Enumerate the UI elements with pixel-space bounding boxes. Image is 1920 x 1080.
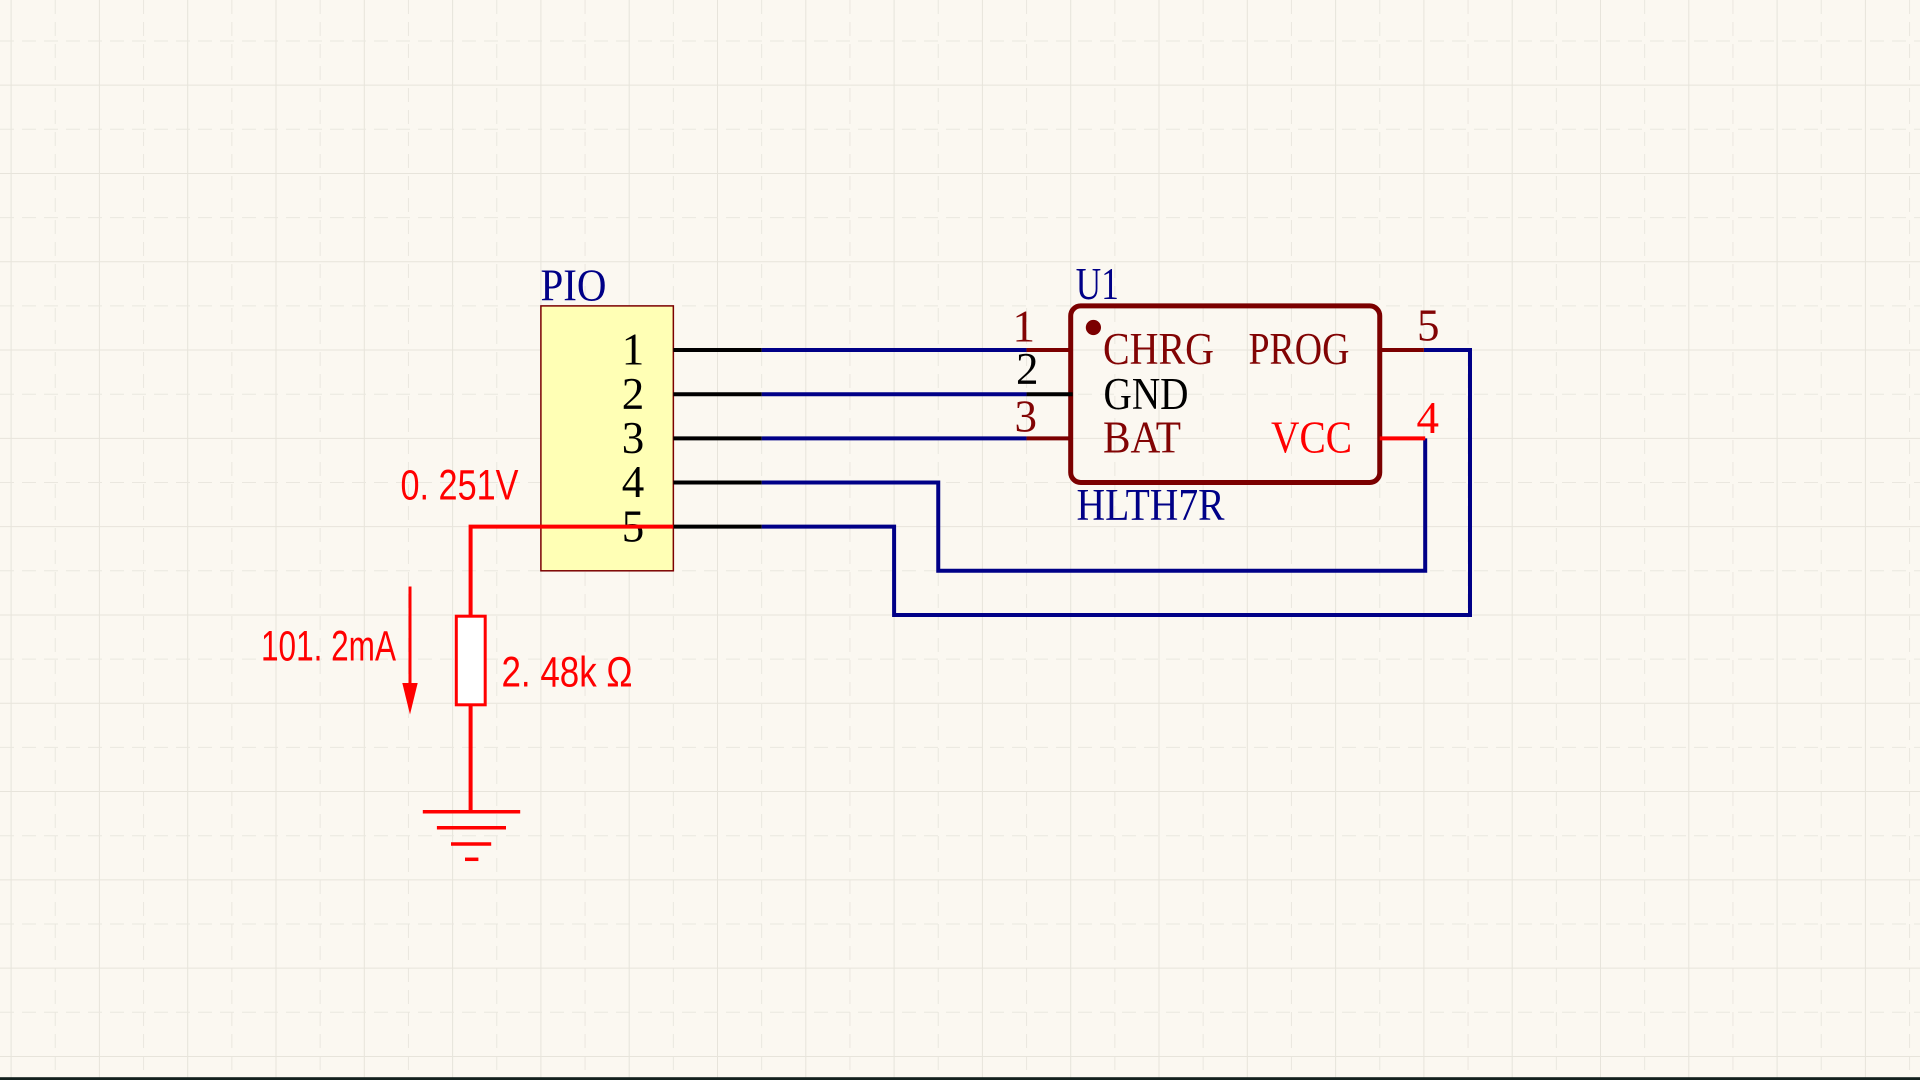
svg-text:PROG: PROG xyxy=(1249,324,1350,374)
svg-text:3: 3 xyxy=(1015,391,1038,441)
svg-text:CHRG: CHRG xyxy=(1103,324,1214,374)
svg-text:0. 251V: 0. 251V xyxy=(401,461,519,509)
svg-text:4: 4 xyxy=(622,457,645,507)
svg-text:BAT: BAT xyxy=(1103,412,1181,462)
svg-text:U1: U1 xyxy=(1076,259,1119,309)
svg-text:5: 5 xyxy=(1417,301,1440,351)
svg-text:101. 2mA: 101. 2mA xyxy=(261,623,396,671)
svg-text:2: 2 xyxy=(622,369,645,419)
svg-text:1: 1 xyxy=(622,325,645,375)
svg-text:3: 3 xyxy=(622,413,645,463)
svg-text:2: 2 xyxy=(1016,344,1039,394)
svg-text:HLTH7R: HLTH7R xyxy=(1077,480,1225,530)
svg-text:PIO: PIO xyxy=(541,260,607,310)
svg-text:2. 48k Ω: 2. 48k Ω xyxy=(502,649,633,697)
svg-text:VCC: VCC xyxy=(1271,412,1352,462)
svg-text:4: 4 xyxy=(1417,393,1440,443)
